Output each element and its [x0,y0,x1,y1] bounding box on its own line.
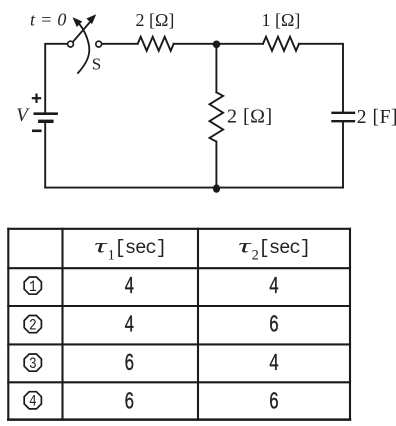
svg-text:6: 6 [124,351,134,378]
svg-text:V: V [16,105,30,126]
wire middle upper (node to R3) [215,44,217,92]
svg-text:2 [Ω]: 2 [Ω] [136,10,175,30]
svg-text:1: 1 [29,279,37,297]
svg-text:4: 4 [269,351,279,378]
resistor R1 2 ohm [136,10,175,51]
svg-text:4: 4 [29,393,37,411]
svg-text:S: S [92,54,101,73]
wire top-left (corner to switch) [45,44,67,112]
svg-text:4: 4 [269,274,279,301]
svg-text:[sec]: [sec] [114,237,166,259]
wire R1 to node to R2 [174,43,263,45]
node top junction [213,41,221,49]
wire middle lower (R3 to bottom node) [215,142,217,189]
svg-text:τ: τ [94,235,107,258]
capacitor C 2F [333,107,396,128]
svg-text:t = 0: t = 0 [30,9,67,29]
option 1 [24,277,41,296]
table grid [8,229,350,420]
wire bottom [45,187,343,189]
svg-text:2 [Ω]: 2 [Ω] [227,106,273,128]
option 3 [24,354,41,373]
svg-text:τ: τ [238,235,251,258]
svg-text:[sec]: [sec] [258,237,310,259]
svg-text:4: 4 [124,313,134,340]
svg-text:2 [F]: 2 [F] [357,107,396,128]
wire switch to R1 [102,43,138,45]
wire left lower (battery to bottom) [44,123,46,188]
svg-text:4: 4 [124,274,134,301]
header tau2 [sec] [238,235,310,263]
svg-text:2: 2 [29,317,37,335]
option 4 [24,392,41,411]
svg-text:3: 3 [29,356,37,374]
resistor R3 2 ohm (middle branch) [209,92,272,141]
svg-text:6: 6 [269,313,279,340]
option 2 [24,316,41,335]
node bottom junction [213,184,220,192]
svg-text:6: 6 [124,390,134,417]
wire right lower [342,122,344,187]
resistor R2 1 ohm [262,10,301,51]
svg-text:1 [Ω]: 1 [Ω] [262,10,301,30]
battery V [16,95,56,131]
header tau1 [sec] [94,235,166,263]
wire R2 to top-right corner [299,44,343,112]
switch S [68,15,102,73]
svg-text:6: 6 [269,390,279,417]
